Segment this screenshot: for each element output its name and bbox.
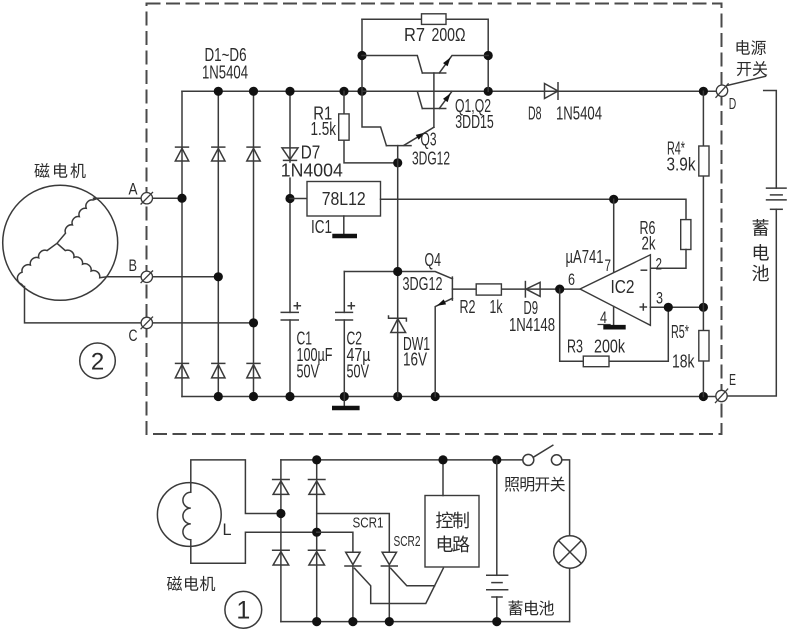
svg-text:L: L (223, 520, 232, 539)
inverting input − mark (641, 269, 648, 271)
wire phase B to terminal B (107, 276, 141, 278)
ground at op-amp pin 4 (603, 325, 625, 330)
svg-text:2: 2 (91, 349, 104, 376)
wire rectifier column C (253, 91, 255, 396)
svg-text:照明开关: 照明开关 (504, 476, 566, 494)
capacitor C2 plates (335, 312, 353, 320)
winding phase A (upper-right arm) (57, 198, 98, 243)
dashed enclosure (regulator unit boundary) (147, 4, 722, 435)
winding phase C (lower-left arm) (17, 243, 57, 287)
lamp (circle with X) (554, 536, 586, 568)
diode D8 (series, pointing right) (545, 82, 559, 100)
svg-text:B: B (129, 256, 138, 275)
svg-text:Q4: Q4 (425, 250, 442, 270)
svg-text:1N5404: 1N5404 (202, 62, 248, 82)
connector terminal B (141, 271, 153, 284)
svg-text:A: A (129, 180, 139, 199)
label R5* 18k (671, 322, 695, 372)
generator M (three-phase magneto) (3, 185, 118, 300)
transistor Q2 emitter (arrow up-right) (439, 91, 452, 108)
svg-text:蓄: 蓄 (752, 219, 770, 239)
wire switch to lamp (562, 460, 570, 536)
svg-text:78L12: 78L12 (322, 189, 366, 209)
svg-text:E: E (729, 372, 736, 389)
label R6 2k (640, 218, 657, 253)
resistor R2 (476, 284, 501, 295)
wire bridge column 1 (top corner to bottom rail) (280, 460, 282, 622)
wire phase A to terminal A (94, 197, 142, 199)
op-amp U1 IC2 (µA741) triangle (580, 255, 650, 325)
junctions on bottom rail (214, 392, 708, 401)
transistor Q1 base bar (422, 72, 445, 74)
svg-text:R2: R2 (460, 297, 476, 317)
junction control box / top rail (438, 455, 447, 464)
transistor Q1 base lead (362, 56, 422, 74)
wire terminal B to node (153, 276, 219, 278)
svg-text:Q3: Q3 (421, 130, 437, 150)
label Q1,Q2 3DD15 (455, 96, 494, 132)
transistor Q2 base lead (362, 91, 422, 108)
diode column2 top (308, 480, 326, 495)
wire R1 bottom to Q3 emitter node (344, 140, 398, 163)
wire D7/C1 column lower part (289, 320, 291, 397)
svg-text:D: D (729, 96, 737, 113)
junction battery2 / top rail (492, 455, 501, 464)
svg-text:3DG12: 3DG12 (403, 274, 443, 294)
battery GB (upper circuit) plates (766, 188, 787, 209)
label R2 1k (460, 297, 504, 317)
wire R6 bottom to pin 2 (650, 250, 686, 269)
junction Q1 base row (357, 51, 366, 60)
resistor R5 (699, 331, 709, 362)
zener DW1 (on Q3 emitter column) (389, 315, 407, 332)
junctions on +bus (214, 87, 708, 96)
svg-text:µA741: µA741 (566, 247, 604, 267)
svg-text:6: 6 (568, 271, 575, 289)
junction op-amp output node (pin 6) (555, 285, 564, 294)
svg-text:1.5k: 1.5k (311, 119, 337, 139)
wire D7/C1 column upper part (289, 91, 291, 312)
power switch lever (电源开关) (727, 76, 765, 85)
svg-text:电路: 电路 (436, 535, 470, 555)
transistor Q1 emitter (arrow up-right) (439, 56, 488, 74)
junction R1/Q3-emitter (393, 158, 402, 167)
svg-text:R3: R3 (567, 336, 583, 356)
svg-text:池: 池 (752, 264, 770, 284)
connector terminal E (715, 389, 728, 404)
label 电源开关 (735, 40, 769, 79)
wire C2 column (343, 272, 345, 397)
wire phase C down and to terminal C (25, 287, 142, 323)
svg-text:电源: 电源 (735, 40, 767, 58)
svg-text:16V: 16V (403, 350, 427, 370)
svg-text:2k: 2k (642, 233, 657, 253)
label R3 200k (567, 336, 626, 356)
wire SCR1 gate to control box (355, 568, 444, 603)
svg-text:1N4148: 1N4148 (509, 315, 555, 335)
label 蓄电池 (vertical) (752, 219, 770, 285)
label R1 1.5k (311, 104, 337, 139)
svg-text:IC2: IC2 (611, 277, 635, 297)
svg-text:1N4004: 1N4004 (281, 161, 343, 181)
svg-text:3DG12: 3DG12 (412, 149, 450, 169)
wire Q4 base to op-amp output node (452, 288, 580, 290)
transistor Q4 base bar (451, 277, 453, 300)
diode D5 (column B bottom) (211, 363, 225, 378)
transistor Q3 base bar (386, 145, 411, 147)
ground at IC1 (332, 216, 357, 236)
svg-text:2: 2 (656, 256, 663, 274)
diode D3 (column C top) (246, 147, 260, 161)
winding phase B (lower-right arm) (57, 243, 107, 277)
resistor R3 (583, 356, 609, 367)
wire 78L12 output to R6 top and pin2 feed (381, 199, 687, 219)
svg-text:3.9k: 3.9k (667, 154, 697, 174)
junction pin3/R4R5 column (699, 303, 708, 312)
wire to SCR1 anode (from col2 mid net) (317, 532, 353, 552)
junctions bottom rail (figure 1) (312, 617, 501, 626)
transistor Q3 emitter column (down through DW1 to rail) (397, 146, 399, 397)
capacitor C1 plates (281, 312, 300, 320)
battery GB2 plates (486, 575, 508, 597)
wire bottom rail (ground rail to terminal E) (182, 396, 716, 398)
generator L magneto circle (157, 483, 221, 547)
diode D4 (column A bottom) (175, 363, 189, 378)
wire +bus (top rail y=91.3, through D8 to switch D) (182, 90, 716, 92)
connector terminal D (716, 83, 729, 98)
resistor R1 (339, 114, 349, 140)
svg-text:50V: 50V (347, 362, 370, 382)
transistor Q2 base bar (422, 108, 445, 110)
wire 78L12 input (290, 198, 307, 200)
svg-text:磁电机: 磁电机 (34, 163, 88, 181)
main ground below bottom rail (332, 397, 360, 409)
svg-text:D8: D8 (528, 104, 542, 124)
junction B-row (214, 272, 223, 281)
svg-text:7: 7 (605, 257, 612, 275)
wire top rail (DC+) of bottom circuit (281, 459, 523, 461)
label C2 47µ 50V (347, 329, 371, 382)
resistor R7 (422, 14, 447, 25)
regulator IC1 78L12 box (307, 182, 381, 217)
wire control box supply (442, 460, 444, 496)
C1 polarity + (294, 302, 302, 310)
wire feedback: pin6 node down, through R3, up to pin3 (560, 289, 669, 361)
label D1~D6 1N5404 (202, 45, 248, 82)
wire R7 loop top row (362, 19, 488, 91)
wire SCR2 gate (391, 568, 435, 586)
thyristor SCR2 body (381, 552, 398, 621)
label Q3 3DG12 (412, 130, 450, 169)
connector terminal A (141, 192, 153, 205)
svg-text:1: 1 (236, 597, 250, 625)
non-inverting input + mark (640, 303, 648, 311)
wire op-amp pin 4 stem (613, 307, 615, 326)
wire battery2 stem top (496, 460, 498, 575)
control circuit box 控制电路 (425, 496, 479, 568)
wire Q1/Q2 base column (left vertical) (362, 19, 386, 145)
figure number 1 (circled) (225, 591, 262, 628)
junction column2 mid (312, 528, 321, 537)
svg-text:R7: R7 (404, 25, 425, 45)
diode column2 bottom (308, 550, 326, 565)
label DW1 16V (403, 334, 430, 370)
wire lamp to bottom rail (569, 568, 571, 621)
wire Q4-collector row (C2 top corner to Q4) (344, 272, 452, 279)
label D8 1N5404 (528, 104, 602, 124)
svg-text:SCR2: SCR2 (394, 533, 421, 550)
svg-text:蓄电池: 蓄电池 (508, 600, 555, 618)
svg-text:D7: D7 (301, 143, 321, 163)
junction pin7 supply node (609, 195, 618, 204)
diode D2 (column B top) (211, 147, 225, 161)
transistor Q3 collector (arrow up-right to tie) (404, 127, 434, 145)
resistor R4 (699, 146, 709, 176)
junction C-row (249, 318, 258, 327)
diode D6 (column C bottom) (246, 363, 260, 378)
winding L (coil) (183, 483, 191, 547)
wire magneto top to bridge column 1 mid (191, 460, 281, 514)
wire terminal C to node (153, 322, 254, 324)
pin number 4 (underlined) (598, 309, 611, 327)
svg-text:C: C (129, 326, 138, 345)
wire pin 3 row (650, 306, 703, 308)
label D9 1N4148 (509, 298, 555, 335)
svg-text:SCR1: SCR1 (353, 515, 384, 532)
wire to SCR2 anode (from col1 mid net) (317, 514, 390, 553)
wire terminal A to node (153, 197, 183, 199)
diode D7 (down-pointing) (282, 148, 298, 161)
junction A-row (177, 194, 186, 203)
junction 78L12 input node (285, 194, 294, 203)
wire magneto bottom to bridge column 2 mid (191, 532, 317, 563)
svg-text:200Ω: 200Ω (432, 25, 466, 45)
diode column1 top (272, 480, 290, 495)
wire battery negative to terminal E (727, 209, 776, 396)
svg-text:200k: 200k (594, 336, 626, 356)
junction column2 top rail (312, 455, 321, 464)
wire rectifier column B (217, 91, 219, 396)
junction column1 mid (276, 509, 285, 518)
junction Q4 collector node (393, 267, 402, 276)
label Q4 3DG12 (403, 250, 443, 294)
wire rectifier column A (bus to bottom rail) (181, 91, 183, 396)
wire bottom rail of bottom circuit (281, 621, 570, 623)
wire bridge column 2 (316, 460, 318, 622)
svg-text:IC1: IC1 (311, 217, 332, 237)
svg-text:50V: 50V (297, 362, 320, 382)
connector terminal C (141, 317, 153, 330)
label R7 200Ω (404, 25, 466, 45)
C2 polarity + (348, 302, 356, 310)
svg-text:控制: 控制 (436, 511, 469, 531)
svg-text:3: 3 (656, 290, 663, 308)
transistor Q4 emitter (arrow down-left) and wire to rail (435, 298, 452, 396)
resistor R6 (681, 220, 691, 250)
label C1 100µF 50V (297, 329, 333, 382)
wire Q1/Q2 collectors vertical tie (433, 73, 435, 127)
diode D1 (column A top) (175, 147, 189, 161)
wire R4/R5 sense column (702, 91, 704, 396)
diode D9 (pointing left) (525, 281, 540, 298)
junction pin3/R3 (664, 303, 673, 312)
wire switch to battery positive (764, 91, 777, 189)
svg-text:1k: 1k (490, 297, 504, 317)
svg-text:R5*: R5* (671, 322, 689, 342)
wire R1 column top (343, 91, 345, 114)
figure number 2 (circled) (80, 343, 116, 379)
svg-text:18k: 18k (672, 352, 695, 372)
svg-text:1N5404: 1N5404 (556, 104, 602, 124)
label 1N4004 (with mask over column wire) (279, 161, 343, 181)
label R4* 3.9k (667, 139, 697, 175)
diode column1 bottom (272, 550, 290, 565)
wire battery2 stem bottom (496, 597, 498, 622)
svg-text:电: 电 (752, 244, 770, 264)
svg-text:磁电机: 磁电机 (167, 576, 217, 594)
lighting switch 照明开关 contacts (523, 445, 562, 465)
svg-text:3DD15: 3DD15 (455, 112, 494, 132)
svg-text:开关: 开关 (736, 61, 768, 79)
thyristor SCR1 body (344, 552, 361, 621)
wire op-amp pin 7 supply (613, 199, 615, 272)
junction Q1 collector row (484, 51, 493, 60)
